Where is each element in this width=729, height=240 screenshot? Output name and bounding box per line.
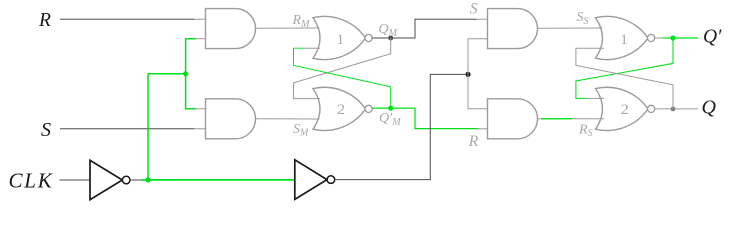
wire RS net (A4 out to NOR G4, green) — [541, 118, 573, 120]
wire CLKbar vertical riser — [147, 74, 149, 180]
wire R input — [60, 18, 195, 20]
wire SM net (A2 out to NOR G2) — [256, 118, 320, 120]
junction Q — [671, 107, 676, 112]
NOR G1 output bubble — [365, 34, 372, 41]
wire slave clock down to AND A4 — [468, 74, 488, 108]
inverter U2 output bubble — [327, 176, 335, 184]
svg-text:2: 2 — [337, 101, 345, 118]
wire CLKbar up to AND A1 — [186, 39, 196, 74]
wire CLK input — [60, 179, 91, 181]
wire QMbar cross-coupling to G1 input — [294, 48, 391, 108]
NOR G2 output bubble — [365, 105, 372, 112]
NOR G3 output bubble — [648, 34, 655, 41]
wire Qbar cross-coupling to G4 input — [576, 38, 673, 98]
output stub A4 — [538, 118, 543, 120]
input stub R to AND A1 — [195, 18, 207, 20]
svg-text:S: S — [470, 0, 478, 17]
NOR gate G4 (slave, 2) — [596, 87, 649, 130]
wire QM net (G1 out to slave AND A3) — [372, 19, 476, 38]
wire RM net (A1 out to NOR G1) — [256, 27, 320, 29]
junction slave clock — [465, 72, 470, 77]
junction CLKbar — [145, 177, 150, 182]
AND gate A4 (slave R gate) — [488, 99, 538, 139]
svg-text:2: 2 — [621, 101, 629, 118]
input stub cross to G1 — [303, 47, 320, 49]
wire Qbar output (green) — [662, 37, 698, 39]
AND gate A3 (slave S gate) — [488, 9, 538, 49]
svg-text:S: S — [41, 119, 51, 141]
NOR gate G1 (master, 1) — [313, 16, 366, 59]
wire Q output — [655, 108, 698, 110]
input stub to AND A4 — [477, 128, 489, 130]
NOR gate G3 (slave, 1) — [596, 16, 649, 59]
input stub to AND A3 — [477, 18, 489, 20]
AND gate A1 (master R gate) — [206, 9, 256, 49]
svg-text:QM: QM — [379, 22, 398, 39]
svg-text:R: R — [38, 10, 51, 31]
svg-text:R: R — [468, 133, 479, 150]
wire SS net (A3 out to NOR G3) — [538, 27, 603, 29]
svg-text:RM: RM — [292, 13, 311, 30]
inverter U1 output bubble — [122, 176, 130, 184]
input stub to G4 upper — [586, 97, 604, 99]
wire Q cross-coupling to G3 input — [576, 48, 673, 109]
svg-text:Q′: Q′ — [703, 26, 722, 47]
junction CLKbar branch — [183, 71, 188, 76]
wire slave clock up to AND A3 — [468, 39, 488, 75]
wire QM cross-coupling to G2 input — [294, 38, 391, 99]
svg-text:1: 1 — [620, 31, 628, 48]
input stub CLKbar to AND A1 — [195, 38, 207, 40]
junction QM — [388, 36, 393, 41]
junction Qbar — [670, 35, 675, 40]
wire U1 output stub — [130, 179, 142, 181]
wire QMbar net (G2 out to slave AND A4) — [372, 108, 479, 129]
svg-text:1: 1 — [337, 31, 345, 48]
NOR gate G2 (master, 2) — [313, 87, 366, 130]
svg-text:SM: SM — [293, 122, 309, 139]
NOR G4 output bubble — [648, 105, 655, 112]
inverter U2 (double-inverted clock) — [295, 160, 327, 200]
wire U2 output to slave branch — [335, 74, 465, 179]
svg-text:SS: SS — [577, 10, 589, 27]
svg-text:Q′M: Q′M — [379, 111, 401, 128]
svg-text:Q: Q — [702, 96, 717, 118]
svg-text:CLK: CLK — [9, 168, 54, 192]
AND gate A2 (master S gate) — [206, 99, 256, 139]
wire S input — [60, 128, 195, 130]
inverter U1 (CLK) — [90, 160, 122, 199]
svg-text:RS: RS — [578, 122, 593, 139]
wire CLKbar down to AND A2 — [186, 74, 196, 109]
input stub to G4 lower — [572, 118, 605, 120]
wire CLKbar horizontal to branch — [148, 73, 186, 75]
wire G3 output stub — [655, 37, 663, 39]
input stub S to AND A2 — [195, 128, 207, 130]
wire CLKbar horizontal to U2 — [142, 179, 295, 181]
input stub CLKbar to AND A2 — [195, 108, 207, 110]
junction QMbar — [388, 106, 393, 111]
